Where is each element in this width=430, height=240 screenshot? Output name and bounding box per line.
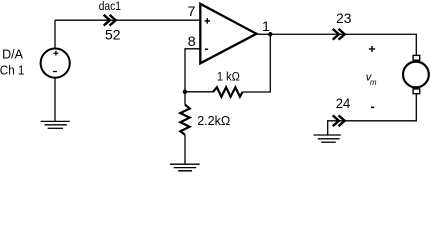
cable arrow 24 bbox=[333, 115, 345, 126]
op-amp - input mark bbox=[205, 48, 208, 50]
wire: pin 8 stub and feedback drop bbox=[185, 49, 200, 92]
op-amp + input mark bbox=[205, 18, 210, 23]
resistor R2 2.2 kOhm bbox=[180, 105, 189, 135]
svg-text:52: 52 bbox=[105, 27, 121, 43]
label D/A Ch 1 bbox=[0, 47, 24, 77]
wire: junction to R2 bbox=[184, 92, 186, 105]
wire: source to ground bbox=[54, 78, 56, 122]
svg-text:D/A: D/A bbox=[2, 47, 24, 61]
wire: R1 to output node bbox=[243, 34, 271, 92]
svg-text:24: 24 bbox=[336, 96, 351, 112]
wire: junction to R1 bbox=[185, 91, 213, 93]
ground (bottom right) bbox=[314, 135, 341, 142]
svg-text:Ch 1: Ch 1 bbox=[0, 64, 24, 78]
cable arrow dac1/52 bbox=[104, 15, 116, 26]
wire: top net from source to op-amp pin 7 bbox=[55, 20, 200, 49]
label v_m bbox=[366, 71, 377, 86]
resistor R1 1 kOhm bbox=[213, 87, 243, 96]
svg-text:7: 7 bbox=[188, 4, 196, 20]
ground (under R2) bbox=[170, 164, 200, 171]
motor M (v_m) bbox=[403, 55, 429, 93]
op-amp U1 bbox=[200, 4, 256, 64]
wire: motor to ground run bbox=[328, 94, 417, 135]
svg-text:1 kΩ: 1 kΩ bbox=[217, 70, 240, 84]
ground (under source) bbox=[41, 121, 70, 128]
svg-text:m: m bbox=[370, 78, 377, 87]
label - (motor) bbox=[371, 106, 374, 108]
svg-text:23: 23 bbox=[336, 11, 352, 27]
node junction (inverting input) bbox=[183, 90, 187, 94]
cable arrow 23 bbox=[333, 29, 345, 40]
label + (motor) bbox=[369, 46, 375, 52]
wire: op-amp output stub bbox=[256, 33, 271, 35]
node junction (output) bbox=[268, 32, 272, 36]
svg-text:2.2kΩ: 2.2kΩ bbox=[197, 113, 230, 128]
svg-text:dac1: dac1 bbox=[99, 0, 121, 13]
voltage source V1 (D/A) bbox=[41, 49, 70, 78]
wire: output to motor bbox=[270, 34, 416, 55]
svg-text:8: 8 bbox=[188, 34, 196, 50]
wire: R2 to ground bbox=[184, 135, 186, 164]
